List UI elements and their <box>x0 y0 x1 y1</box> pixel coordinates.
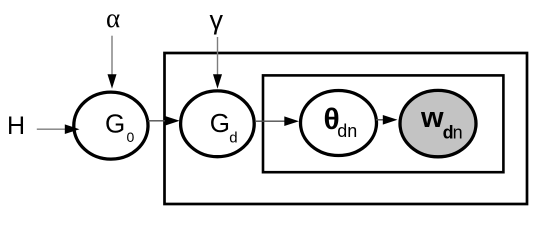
arrowhead gamma to Gd <box>213 74 222 89</box>
svg-text:α: α <box>106 3 120 33</box>
arrowhead theta to w <box>383 115 398 125</box>
node G0 <box>74 92 148 159</box>
outer plate D <box>165 53 528 204</box>
wire theta to w <box>376 119 384 121</box>
node theta_dn <box>301 91 377 156</box>
svg-text:d: d <box>229 130 237 147</box>
svg-text:G: G <box>210 108 230 138</box>
wire gamma to Gd <box>217 37 219 76</box>
node Gd <box>181 91 255 157</box>
svg-text:n: n <box>453 123 463 143</box>
svg-text:w: w <box>420 102 444 134</box>
svg-text:dn: dn <box>337 121 357 141</box>
arrowhead Gd to theta <box>284 116 299 126</box>
svg-text:0: 0 <box>127 129 135 145</box>
node w_dn (observed) <box>400 90 476 156</box>
arrowhead alpha to G0 <box>108 74 117 89</box>
svg-text:G: G <box>105 108 125 138</box>
wire Gd to theta <box>255 120 285 122</box>
arrowhead H to G0 <box>65 124 80 134</box>
svg-text:γ: γ <box>210 5 224 35</box>
inner plate N <box>263 75 503 172</box>
arrowhead G0 to Gd <box>165 116 180 126</box>
wire H to G0 <box>37 128 66 130</box>
wire G0 to Gd <box>148 120 166 122</box>
wire alpha to G0 <box>111 36 113 76</box>
svg-text:H: H <box>7 112 25 140</box>
